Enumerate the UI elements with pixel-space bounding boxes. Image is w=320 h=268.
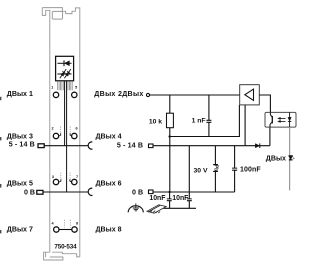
terminal clamp 8 bbox=[72, 227, 77, 232]
svg-text:ДВых: ДВых bbox=[266, 155, 286, 163]
terminal clamp 6 bbox=[72, 133, 77, 138]
wire comparator output bbox=[259, 95, 270, 112]
clamp hook 3 bbox=[60, 179, 61, 182]
wire top node DVyh2 bbox=[150, 94, 240, 96]
resistor 10k bbox=[167, 113, 174, 128]
node row1 edge mark bbox=[0, 97, 1, 100]
wire comparator supply bbox=[244, 105, 246, 146]
optocoupler U2 box bbox=[265, 112, 296, 127]
svg-text:8: 8 bbox=[76, 221, 78, 225]
battery G1 plates bbox=[213, 165, 218, 172]
socket arc 0V bbox=[88, 188, 92, 195]
node RC junction bbox=[168, 135, 170, 137]
valve output symbol bbox=[289, 156, 295, 160]
wire 0V rail bbox=[153, 191, 235, 193]
capacitor 1nF branch wires bbox=[208, 95, 210, 137]
terminal clamp 5 bbox=[72, 92, 77, 97]
svg-text:ДВых 2ДВых: ДВых 2ДВых bbox=[94, 90, 143, 98]
svg-text:750-534: 750-534 bbox=[54, 244, 77, 251]
wire 0V through module bbox=[43, 191, 88, 193]
capacitor 10nF no.1 wires bbox=[169, 192, 171, 208]
svg-text:ДВых 3: ДВых 3 bbox=[7, 132, 33, 140]
ground earth symbol bbox=[128, 203, 143, 212]
svg-text:5 - 14 В: 5 - 14 В bbox=[9, 141, 35, 149]
optocoupler phototransistor bbox=[270, 112, 272, 127]
diode V1 bbox=[255, 143, 259, 148]
DIN rail clip symbol bbox=[147, 205, 166, 213]
clamp slot dashes row3 bbox=[61, 173, 70, 180]
output LED pair symbol in box bbox=[57, 68, 72, 79]
comparator triangle bbox=[245, 89, 254, 100]
clamp slot dashes row4 bbox=[65, 220, 71, 228]
svg-text:ДВых 6: ДВых 6 bbox=[96, 180, 122, 188]
svg-text:6: 6 bbox=[75, 126, 77, 130]
svg-text:4: 4 bbox=[52, 221, 55, 225]
terminal clamp 7 bbox=[72, 179, 77, 184]
terminal square 0V left bbox=[37, 190, 43, 194]
wire 5-14V through module bbox=[44, 145, 88, 147]
comparator U1 box bbox=[240, 85, 260, 105]
svg-text:7: 7 bbox=[76, 175, 78, 179]
battery G1 wires bbox=[214, 146, 216, 192]
symbol box U0 bbox=[56, 56, 74, 81]
svg-text:ДВых 5: ДВых 5 bbox=[7, 180, 33, 188]
capacitor 10nF no.1 plates bbox=[167, 199, 172, 201]
capacitor 100nF wires bbox=[234, 146, 236, 192]
terminal clamp 1 bbox=[53, 92, 58, 97]
clamp hook 6 bbox=[70, 133, 71, 136]
module 750-534 body outline bbox=[42, 8, 80, 260]
svg-text:3: 3 bbox=[52, 175, 54, 179]
terminal clamp 2 bbox=[53, 133, 58, 138]
svg-text:ДВых 1: ДВых 1 bbox=[7, 90, 33, 98]
svg-text:1 nF: 1 nF bbox=[192, 117, 206, 124]
svg-text:ДВых 4: ДВых 4 bbox=[96, 132, 122, 140]
optocoupler light arrows bbox=[278, 117, 286, 122]
svg-text:2: 2 bbox=[52, 126, 54, 130]
wire +rail 5-14V bbox=[153, 127, 270, 146]
wire clamp4 to clamp8 bbox=[59, 229, 72, 231]
optocoupler LED bbox=[288, 112, 291, 127]
clamp hook 2 bbox=[59, 133, 60, 136]
capacitor 1nF plates bbox=[206, 120, 211, 122]
contact comb hatch bbox=[58, 81, 72, 90]
terminal clamp 4 bbox=[54, 227, 59, 232]
socket arc 5-14V bbox=[88, 142, 92, 149]
terminal square 0V right bbox=[149, 190, 154, 194]
svg-text:30 V: 30 V bbox=[194, 167, 208, 174]
svg-text:ДВых 7: ДВых 7 bbox=[7, 226, 33, 234]
terminal square 5-14V right bbox=[149, 144, 154, 148]
svg-text:100nF: 100nF bbox=[240, 166, 261, 173]
terminal clamp 3 bbox=[53, 179, 58, 184]
svg-text:0 В: 0 В bbox=[132, 189, 143, 197]
wire shield bar bbox=[164, 207, 197, 209]
svg-text:ДВых 8: ДВых 8 bbox=[96, 226, 122, 234]
capacitor 10nF no.2 plates bbox=[187, 199, 192, 201]
clamp hook 7 bbox=[70, 179, 71, 182]
wire internal bus B bbox=[66, 81, 68, 192]
terminal circle DVyh2 bbox=[146, 93, 149, 96]
svg-text:10 k: 10 k bbox=[149, 118, 162, 125]
terminal square 5-14V left bbox=[38, 144, 44, 148]
svg-text:5 - 14 В: 5 - 14 В bbox=[117, 142, 143, 150]
node row3 edge mark bbox=[0, 184, 1, 188]
wire RC junction to comparator bbox=[170, 105, 240, 137]
suppressor diode symbol in box bbox=[57, 60, 71, 66]
capacitor 100nF plates bbox=[232, 168, 237, 170]
svg-text:10nF: 10nF bbox=[149, 195, 165, 202]
node row4 edge mark bbox=[0, 230, 1, 233]
svg-text:0 В: 0 В bbox=[24, 189, 35, 197]
module top contact block bbox=[52, 11, 62, 19]
wire field output line bbox=[289, 127, 291, 190]
svg-text:10nF: 10nF bbox=[172, 195, 188, 202]
wire internal bus A bbox=[64, 81, 66, 146]
wire resistor branch bbox=[169, 95, 171, 192]
svg-text:Pb: Pb bbox=[213, 165, 219, 171]
node row2 edge mark bbox=[0, 137, 1, 140]
svg-text:5: 5 bbox=[75, 85, 77, 89]
capacitor 10nF no.2 wires bbox=[188, 146, 190, 209]
clamp slot dashes row2 bbox=[61, 127, 71, 134]
svg-text:1: 1 bbox=[51, 85, 53, 89]
node 0V junction bbox=[168, 191, 170, 193]
